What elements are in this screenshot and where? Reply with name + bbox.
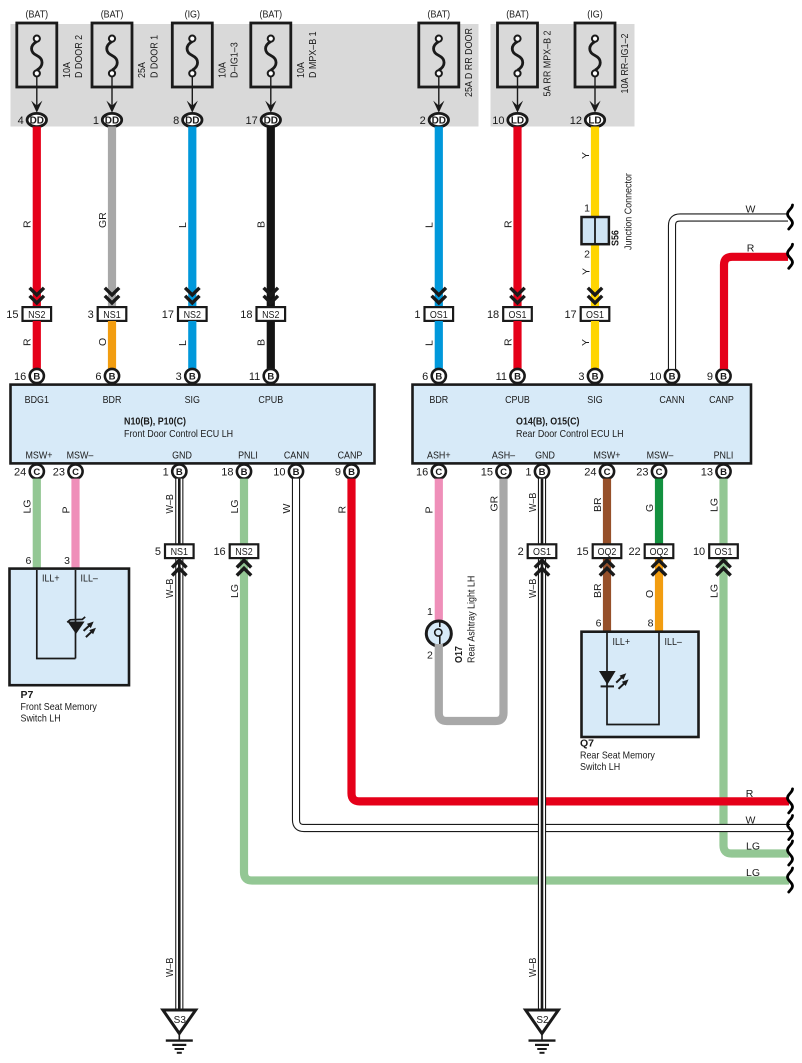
- svg-text:OS1: OS1: [715, 546, 733, 558]
- svg-text:23: 23: [636, 467, 648, 479]
- wire R fuse to 15 NS2 to BDG1: [6, 127, 51, 370]
- wire GR fuse to 3 NS1 then O to BDR: [88, 127, 127, 370]
- wire R CANP down and right to edge: [336, 479, 789, 802]
- svg-text:25A D RR DOOR: 25A D RR DOOR: [463, 28, 475, 97]
- svg-text:Q7: Q7: [580, 738, 594, 750]
- svg-text:6: 6: [422, 371, 428, 383]
- svg-text:3: 3: [176, 371, 182, 383]
- wire W-B GND to 5 NS1: [164, 479, 179, 545]
- fuse 5A RR MPX-B 2 with connector 10 LD: [492, 9, 553, 128]
- connector 16 NS2: [213, 544, 258, 575]
- fuse 10A D DOOR 2 with connector 4 DD: [17, 9, 85, 128]
- connector 22 OQ2: [628, 544, 673, 575]
- svg-text:10: 10: [693, 546, 705, 558]
- svg-text:13: 13: [701, 467, 713, 479]
- svg-text:(BAT): (BAT): [26, 9, 49, 21]
- svg-text:R: R: [336, 506, 348, 514]
- svg-text:C: C: [72, 467, 79, 478]
- wire G right MSW- to 22 OQ2: [644, 479, 659, 545]
- svg-text:B: B: [435, 371, 442, 382]
- svg-text:1: 1: [427, 606, 433, 618]
- svg-text:B: B: [241, 467, 248, 478]
- svg-text:B: B: [33, 371, 40, 382]
- svg-text:NS1: NS1: [171, 546, 189, 558]
- svg-text:24: 24: [584, 467, 596, 479]
- label LG lowest wire: [746, 867, 760, 879]
- svg-text:2: 2: [420, 115, 426, 127]
- wire W CANN down and right to edge: [281, 479, 790, 828]
- svg-text:10A: 10A: [216, 62, 228, 78]
- ECU N10(B) P10(C) Front Door Control ECU LH: [11, 385, 375, 464]
- svg-text:O: O: [644, 590, 656, 598]
- ground S3: [163, 1010, 196, 1053]
- pin 18 (B) PNLI left ECU bottom: [221, 464, 251, 478]
- P7 internal wiring: [37, 570, 76, 659]
- svg-text:Rear Door Control ECU LH: Rear Door Control ECU LH: [516, 428, 624, 440]
- svg-text:W–B: W–B: [164, 579, 176, 598]
- svg-text:(BAT): (BAT): [101, 9, 124, 21]
- svg-text:15: 15: [6, 309, 18, 321]
- pin 24 (C) MSW+ right ECU bottom: [584, 464, 614, 478]
- svg-text:1: 1: [93, 115, 99, 127]
- svg-text:GR: GR: [488, 495, 500, 511]
- svg-text:R: R: [746, 788, 754, 800]
- svg-text:BR: BR: [592, 497, 604, 512]
- svg-text:2: 2: [584, 249, 590, 261]
- svg-text:OS1: OS1: [586, 309, 604, 321]
- svg-text:Rear Ashtray Light LH: Rear Ashtray Light LH: [465, 576, 477, 663]
- svg-text:BDR: BDR: [429, 394, 448, 406]
- switch P7 Front Seat Memory Switch LH box: [10, 569, 130, 686]
- svg-text:18: 18: [487, 309, 499, 321]
- wire LG right PNLI to 10 OS1: [708, 479, 723, 545]
- pin 11 (B) CPUB right ECU top: [496, 369, 525, 383]
- pin 13 (B) PNLI right ECU bottom: [701, 464, 731, 478]
- svg-text:11: 11: [496, 371, 507, 383]
- svg-text:B: B: [293, 467, 300, 478]
- pin 6 (B) BDR right ECU top: [422, 369, 446, 383]
- svg-text:N10(B), P10(C): N10(B), P10(C): [124, 416, 186, 428]
- svg-text:NS1: NS1: [103, 309, 121, 321]
- svg-text:1: 1: [525, 467, 531, 479]
- svg-text:6: 6: [25, 555, 31, 567]
- svg-text:P: P: [60, 506, 72, 513]
- svg-text:LD: LD: [588, 116, 601, 127]
- svg-text:OQ2: OQ2: [650, 546, 669, 558]
- fuse 10A D-IG1-3 with connector 8 DD: [172, 9, 240, 128]
- connector 15 OQ2: [576, 544, 621, 575]
- svg-text:DD: DD: [30, 116, 44, 127]
- break symbol W bottom: [788, 816, 793, 840]
- connector 10 OS1: [693, 544, 738, 575]
- svg-text:LG: LG: [746, 867, 760, 879]
- wire P MSW- to P7 pin 3: [60, 479, 75, 569]
- svg-text:Y: Y: [580, 339, 592, 346]
- svg-text:8: 8: [648, 618, 654, 630]
- svg-text:11: 11: [249, 371, 260, 383]
- wire R fuse to 18 OS1 to CPUB: [487, 127, 532, 370]
- svg-text:C: C: [656, 467, 663, 478]
- pin 6 (B) BDR left ECU top: [95, 369, 119, 383]
- svg-text:22: 22: [628, 546, 640, 558]
- svg-text:C: C: [500, 467, 507, 478]
- svg-text:ILL+: ILL+: [42, 573, 60, 585]
- svg-text:1: 1: [414, 309, 420, 321]
- fuse block band right: [491, 24, 635, 127]
- svg-text:NS2: NS2: [184, 309, 202, 321]
- svg-text:17: 17: [162, 309, 174, 321]
- wire LG OS1 down and right to edge: [708, 558, 789, 853]
- svg-text:ASH–: ASH–: [492, 450, 515, 462]
- svg-text:MSW+: MSW+: [26, 450, 53, 462]
- svg-text:12: 12: [570, 115, 582, 127]
- svg-text:9: 9: [335, 467, 341, 479]
- svg-text:W–B: W–B: [527, 579, 539, 598]
- svg-text:OS1: OS1: [509, 309, 527, 321]
- svg-text:OS1: OS1: [430, 309, 448, 321]
- svg-text:S2: S2: [536, 1015, 549, 1026]
- svg-text:1: 1: [163, 467, 169, 479]
- svg-text:OS1: OS1: [533, 546, 551, 558]
- svg-text:LG: LG: [708, 584, 720, 598]
- LED lamp in Q7: [599, 671, 629, 689]
- wire L fuse to 17 NS2 to SIG: [162, 127, 207, 370]
- svg-text:10: 10: [492, 115, 504, 127]
- break symbol LG middle: [788, 841, 793, 865]
- svg-text:R: R: [22, 220, 34, 228]
- svg-text:16: 16: [213, 546, 225, 558]
- svg-text:Switch LH: Switch LH: [580, 761, 620, 773]
- svg-text:B: B: [267, 371, 274, 382]
- svg-text:CPUB: CPUB: [258, 394, 283, 406]
- Q7 internal wiring: [607, 633, 659, 725]
- label W bottom wire: [746, 814, 756, 826]
- wire BR OQ2 to Q7 pin 6: [592, 558, 607, 632]
- pin 23 (C) MSW- left ECU bottom: [53, 464, 83, 478]
- svg-text:NS2: NS2: [28, 309, 46, 321]
- break symbol LG lowest: [788, 868, 793, 892]
- ground S2: [526, 1010, 559, 1053]
- wire B fuse to 18 NS2 to CPUB: [240, 127, 285, 370]
- Q7 label: [580, 738, 656, 774]
- svg-text:16: 16: [416, 467, 428, 479]
- svg-text:DD: DD: [185, 116, 199, 127]
- svg-text:3: 3: [578, 371, 584, 383]
- svg-text:G: G: [644, 504, 656, 512]
- wire BR right MSW+ to 15 OQ2: [592, 479, 607, 545]
- svg-text:5: 5: [155, 546, 161, 558]
- wire LG NS2 down and right to edge: [229, 558, 789, 880]
- svg-text:6: 6: [95, 371, 101, 383]
- svg-text:B: B: [592, 371, 599, 382]
- svg-text:SIG: SIG: [185, 394, 200, 406]
- connector 5 NS1: [155, 544, 194, 575]
- svg-text:W–B: W–B: [527, 493, 539, 512]
- pin 10 (B) CANN right ECU top: [649, 369, 679, 383]
- switch Q7 Rear Seat Memory Switch LH box: [582, 632, 699, 737]
- label LG middle bottom wire: [746, 840, 760, 852]
- svg-text:23: 23: [53, 467, 65, 479]
- svg-text:P: P: [424, 506, 436, 513]
- svg-text:NS2: NS2: [235, 546, 253, 558]
- svg-text:B: B: [539, 467, 546, 478]
- svg-text:5A RR MPX–B 2: 5A RR MPX–B 2: [542, 30, 554, 96]
- svg-text:W: W: [281, 504, 293, 514]
- svg-text:ILL–: ILL–: [665, 636, 683, 648]
- svg-text:NS2: NS2: [262, 309, 280, 321]
- svg-text:10A RR–IG1–2: 10A RR–IG1–2: [619, 33, 631, 93]
- svg-text:CANN: CANN: [284, 450, 309, 462]
- svg-text:DD: DD: [432, 116, 446, 127]
- svg-text:4: 4: [18, 115, 24, 127]
- svg-text:S56: S56: [610, 230, 622, 246]
- svg-text:B: B: [720, 467, 727, 478]
- svg-text:CPUB: CPUB: [505, 394, 530, 406]
- svg-text:C: C: [435, 467, 442, 478]
- svg-text:10A: 10A: [295, 62, 307, 78]
- svg-text:(BAT): (BAT): [506, 9, 529, 21]
- svg-text:C: C: [33, 467, 40, 478]
- svg-text:GND: GND: [172, 450, 192, 462]
- bulb O17 Rear Ashtray Light LH: [426, 621, 451, 662]
- pin 16 (B) BDG1 left ECU top: [14, 369, 44, 383]
- svg-text:L: L: [177, 222, 189, 228]
- svg-text:LD: LD: [511, 116, 524, 127]
- svg-text:O: O: [97, 338, 109, 346]
- wire W-B right GND to 2 OS1: [527, 479, 542, 545]
- svg-text:10A: 10A: [61, 62, 73, 78]
- pin 23 (C) MSW- right ECU bottom: [636, 464, 666, 478]
- svg-text:D–IG1–3: D–IG1–3: [229, 42, 241, 78]
- pin 1 (B) GND left ECU bottom: [163, 464, 187, 478]
- pin 10 (B) CANN left ECU bottom: [273, 464, 303, 478]
- svg-text:16: 16: [14, 371, 26, 383]
- svg-text:W: W: [746, 204, 756, 216]
- svg-text:LG: LG: [229, 499, 241, 513]
- wire L fuse to 1 OS1 to BDR: [414, 127, 453, 370]
- svg-text:(IG): (IG): [587, 9, 602, 21]
- wire R from edge to right CANP: [724, 243, 788, 369]
- wire W-B OS1 to ground S2: [527, 558, 542, 1010]
- fuse 10A RR-IG1-2 with connector 12 LD: [570, 9, 631, 128]
- break symbol R top: [788, 244, 793, 268]
- svg-text:B: B: [514, 371, 521, 382]
- wire O OQ2 to Q7 pin 8: [644, 558, 659, 632]
- pin 15 (C) ASH- right ECU bottom: [481, 464, 511, 478]
- svg-text:L: L: [177, 340, 189, 346]
- svg-text:18: 18: [221, 467, 233, 479]
- svg-text:(BAT): (BAT): [260, 9, 283, 21]
- svg-text:2: 2: [427, 650, 433, 662]
- label R bottom wire: [746, 788, 754, 800]
- svg-text:R: R: [502, 220, 514, 228]
- P7 label: [21, 689, 98, 725]
- svg-text:MSW–: MSW–: [647, 450, 674, 462]
- svg-text:18: 18: [240, 309, 252, 321]
- svg-text:1: 1: [584, 203, 590, 215]
- svg-text:17: 17: [246, 115, 258, 127]
- wire W from edge to right CANN: [672, 204, 788, 369]
- svg-text:S3: S3: [174, 1015, 187, 1026]
- svg-text:OQ2: OQ2: [598, 546, 617, 558]
- svg-text:9: 9: [707, 371, 713, 383]
- svg-text:Rear Seat Memory: Rear Seat Memory: [580, 750, 656, 762]
- svg-text:LG: LG: [746, 840, 760, 852]
- pin 11 (B) CPUB left ECU top: [249, 369, 278, 383]
- svg-text:Y: Y: [580, 152, 592, 159]
- svg-text:Y: Y: [580, 268, 592, 275]
- pin 9 (B) CANP left ECU bottom: [335, 464, 359, 478]
- svg-text:P7: P7: [21, 689, 34, 701]
- svg-text:DD: DD: [105, 116, 119, 127]
- svg-text:6: 6: [596, 618, 602, 630]
- wire P ASH+ to bulb O17: [424, 479, 439, 621]
- svg-text:R: R: [502, 338, 514, 346]
- svg-text:(BAT): (BAT): [428, 9, 451, 21]
- svg-text:17: 17: [564, 309, 576, 321]
- svg-text:SIG: SIG: [587, 394, 602, 406]
- junction connector S56: [580, 173, 634, 275]
- svg-text:Switch LH: Switch LH: [21, 713, 61, 725]
- svg-text:W–B: W–B: [164, 958, 176, 977]
- svg-text:3: 3: [64, 555, 70, 567]
- pin 1 (B) GND right ECU bottom: [525, 464, 549, 478]
- svg-text:25A: 25A: [136, 62, 148, 78]
- pin 3 (B) SIG right ECU top: [578, 369, 602, 383]
- svg-text:BR: BR: [592, 583, 604, 598]
- svg-text:8: 8: [173, 115, 179, 127]
- svg-text:MSW+: MSW+: [594, 450, 621, 462]
- svg-text:BDR: BDR: [103, 394, 122, 406]
- svg-text:W–B: W–B: [164, 494, 176, 513]
- svg-text:LG: LG: [708, 498, 720, 512]
- svg-text:PNLI: PNLI: [238, 450, 258, 462]
- svg-text:ILL–: ILL–: [81, 573, 99, 585]
- svg-text:R: R: [747, 243, 755, 255]
- svg-text:Front Seat Memory: Front Seat Memory: [21, 701, 98, 713]
- svg-text:15: 15: [481, 467, 493, 479]
- svg-text:B: B: [669, 371, 676, 382]
- fuse 10A D MPX-B 1 with connector 17 DD: [246, 9, 320, 128]
- svg-text:24: 24: [14, 467, 26, 479]
- connector 2 OS1: [518, 544, 557, 575]
- svg-text:B: B: [256, 339, 268, 346]
- svg-text:D DOOR 2: D DOOR 2: [73, 35, 85, 78]
- svg-text:O17: O17: [453, 646, 465, 663]
- svg-text:D DOOR 1: D DOOR 1: [148, 35, 160, 78]
- svg-text:CANP: CANP: [338, 450, 363, 462]
- svg-text:10: 10: [649, 371, 661, 383]
- svg-text:B: B: [109, 371, 116, 382]
- wire GR bulb O17 to ASH-: [439, 479, 504, 721]
- break symbol W top: [788, 205, 793, 229]
- svg-text:B: B: [189, 371, 196, 382]
- break symbol R bottom: [788, 789, 793, 813]
- svg-text:GND: GND: [535, 450, 555, 462]
- svg-text:LG: LG: [22, 499, 34, 513]
- svg-text:L: L: [424, 222, 436, 228]
- svg-text:R: R: [22, 338, 34, 346]
- svg-text:ASH+: ASH+: [427, 450, 451, 462]
- svg-text:CANN: CANN: [659, 394, 684, 406]
- svg-text:2: 2: [518, 546, 524, 558]
- svg-text:B: B: [720, 371, 727, 382]
- svg-text:B: B: [256, 221, 268, 228]
- svg-text:PNLI: PNLI: [714, 450, 734, 462]
- svg-text:3: 3: [88, 309, 94, 321]
- fuse 25A D DOOR 1 with connector 1 DD: [92, 9, 160, 128]
- svg-text:15: 15: [576, 546, 588, 558]
- svg-text:ILL+: ILL+: [613, 636, 631, 648]
- pin 3 (B) SIG left ECU top: [176, 369, 200, 383]
- O17 label: [453, 576, 478, 663]
- svg-text:W: W: [746, 814, 756, 826]
- wire LG MSW+ to P7 pin 6: [22, 479, 37, 569]
- svg-text:MSW–: MSW–: [67, 450, 94, 462]
- wire W-B NS1 to ground S3: [164, 558, 179, 1010]
- svg-text:10: 10: [273, 467, 285, 479]
- svg-text:C: C: [604, 467, 611, 478]
- LED lamp in P7: [67, 617, 96, 637]
- pin 24 (C) MSW+ left ECU bottom: [14, 464, 44, 478]
- svg-text:GR: GR: [97, 212, 109, 228]
- pin 9 (B) CANP right ECU top: [707, 369, 731, 383]
- fuse block band left: [11, 24, 479, 127]
- svg-text:LG: LG: [229, 584, 241, 598]
- svg-text:L: L: [424, 340, 436, 346]
- svg-text:W–B: W–B: [527, 958, 539, 977]
- svg-text:B: B: [176, 467, 183, 478]
- fuse 25A D RR DOOR with connector 2 DD: [419, 9, 475, 128]
- svg-text:CANP: CANP: [709, 394, 734, 406]
- svg-text:Junction Connector: Junction Connector: [622, 173, 634, 250]
- svg-text:D MPX–B 1: D MPX–B 1: [307, 31, 319, 78]
- svg-text:(IG): (IG): [185, 9, 200, 21]
- pin 16 (C) ASH+ right ECU bottom: [416, 464, 446, 478]
- svg-text:B: B: [348, 467, 355, 478]
- svg-text:BDG1: BDG1: [25, 394, 49, 406]
- svg-text:Front Door Control ECU LH: Front Door Control ECU LH: [124, 428, 233, 440]
- wire LG PNLI to 16 NS2: [229, 479, 244, 545]
- svg-text:DD: DD: [264, 116, 278, 127]
- svg-text:O14(B), O15(C): O14(B), O15(C): [516, 416, 580, 428]
- wire Y fuse to 17 OS1 to SIG via S56: [564, 127, 609, 370]
- ECU O14(B) O15(C) Rear Door Control ECU LH: [413, 385, 752, 464]
